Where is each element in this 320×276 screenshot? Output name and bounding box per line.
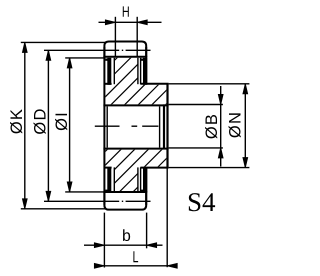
groove bottom left (top section) — [104, 83, 112, 85]
svg-text:ØB: ØB — [203, 113, 221, 139]
dimension b extension right — [146, 213, 148, 249]
bore chamfer left — [106, 106, 108, 147]
dimension OD extension top — [44, 49, 101, 51]
gear left face — [103, 47, 105, 205]
dimension H extension/throat wall right — [136, 17, 138, 57]
dimension OK extension top — [21, 41, 105, 43]
rim thin wall strip top-right (merged with face) — [143, 58, 147, 85]
dimension OK arrow top — [22, 42, 27, 52]
groove wall thin line top-left — [113, 58, 115, 84]
hatching lower web section — [0, 50, 302, 200]
groove wall thin line bottom-left — [113, 167, 115, 192]
dimension OK line — [24, 42, 26, 208]
groove bottom bridge right — [141, 190, 143, 192]
tooth root line bottom — [103, 191, 147, 193]
dimension OI arrow bottom — [67, 182, 72, 192]
svg-text:L: L — [132, 249, 138, 266]
dimension OI extension top — [65, 57, 104, 59]
dimension OK arrow bottom — [22, 199, 27, 209]
dimension ON line — [244, 84, 246, 168]
dimension OD line — [47, 50, 49, 201]
gear top cap outline (tooth rim, top) — [104, 42, 146, 58]
centerline — [95, 125, 159, 127]
groove bottom bridge left — [105, 190, 107, 192]
bore chamfer right — [159, 106, 161, 147]
dimension L line — [94, 265, 177, 267]
dimension H extension/throat wall left — [114, 17, 116, 57]
dimension b line — [84, 244, 163, 246]
dimension H arrow left — [105, 20, 115, 25]
dimension OK extension bottom — [21, 208, 105, 210]
dimension H line — [99, 21, 162, 23]
groove top bridge left — [105, 59, 107, 61]
dimension H arrow right — [137, 20, 147, 25]
dimension b arrow right — [147, 243, 157, 248]
rim thin wall strip top-left (blackened thin section) — [107, 58, 111, 85]
svg-text:b: b — [122, 228, 131, 245]
groove wall thin line top-right — [137, 58, 139, 84]
dimension L extension right — [166, 169, 168, 268]
dimension OB extension top — [169, 104, 223, 106]
hub chamfer line right face — [163, 104, 165, 148]
groove top bridge right — [141, 59, 143, 61]
hub right face — [166, 84, 168, 168]
dimension OD arrow bottom — [46, 191, 51, 201]
gear bottom cap outline — [104, 192, 146, 210]
groove inner thin line bottom-right — [140, 167, 142, 192]
groove top right + hub step (bottom section) — [140, 167, 168, 169]
bore top line — [103, 104, 168, 106]
dimension L arrow right — [167, 263, 177, 268]
groove bottom right + hub step (top section) — [140, 83, 168, 85]
dimension OI line — [69, 58, 71, 192]
groove wall thin line bottom-right — [137, 167, 139, 192]
groove inner thin line top-right — [140, 58, 142, 84]
hatching upper web section — [0, 50, 302, 200]
dimension b extension left — [103, 213, 105, 268]
svg-text:ØN: ØN — [226, 111, 244, 138]
dimension b arrow left — [94, 243, 104, 248]
dimension OI arrow top — [67, 58, 72, 68]
svg-text:S4: S4 — [187, 187, 216, 217]
rim thin wall strip bottom-right (merged with face) — [143, 167, 147, 192]
dimension OB extension bottom — [169, 147, 223, 149]
dimension OB line — [220, 86, 222, 167]
dimension OB arrow top — [218, 95, 223, 105]
dimension OD arrow top — [46, 50, 51, 60]
bore bottom line — [103, 148, 168, 150]
rim right face top — [145, 47, 147, 84]
dimension OD extension bottom — [44, 200, 101, 202]
dimension ON arrow top — [243, 84, 248, 94]
throat line bottom (pitch) — [101, 200, 151, 202]
svg-text:H: H — [122, 4, 130, 21]
dimension L arrow left — [94, 263, 104, 268]
throat line top (pitch) — [101, 49, 151, 51]
svg-text:ØI: ØI — [53, 111, 71, 131]
dimension ON extension bottom — [169, 167, 250, 169]
svg-text:ØK: ØK — [8, 108, 26, 134]
dimension ON arrow bottom — [243, 158, 248, 168]
dimension ON extension top — [169, 83, 250, 85]
tooth root line top — [103, 56, 147, 58]
dimension OI extension bottom — [65, 191, 104, 193]
rim right face bottom — [145, 167, 147, 205]
svg-text:ØD: ØD — [32, 107, 50, 134]
dimension OB arrow bottom — [218, 148, 223, 158]
groove top left (bottom section) — [104, 167, 112, 169]
rim thin wall strip bottom-left — [107, 167, 111, 192]
